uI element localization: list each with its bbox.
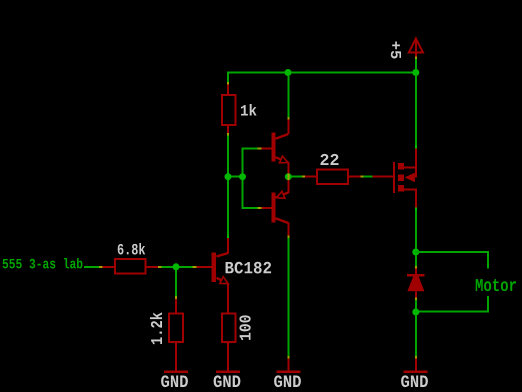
wire node down to R4 — [175, 270, 177, 296]
resistor R1 1k — [222, 95, 257, 125]
transistor Q2 top NPN — [272, 76, 290, 177]
resistor R5 100 — [222, 314, 251, 343]
wire Q3 collector pin down — [287, 223, 289, 236]
mosfet Q4 — [393, 146, 417, 211]
ground GND2 — [214, 371, 241, 388]
wire Q1 emitter pin down to R5 — [227, 284, 229, 313]
label 555 3-as lab — [3, 258, 83, 268]
resistor R2 6.8k — [115, 243, 146, 274]
wire motor node to GND — [415, 316, 417, 357]
node dot emitters — [285, 173, 292, 180]
wire top net from 1k corner to +5 rail — [227, 72, 417, 74]
wire bottom base lead — [244, 207, 258, 209]
wire node to R3 — [292, 176, 303, 178]
supply symbol +5 — [391, 39, 423, 70]
wire Q1 collector pin up — [227, 247, 229, 254]
wire Q3 emitter pin up to node — [287, 177, 289, 193]
wire Q2 collector pin up to top net — [287, 120, 289, 134]
label GND — [214, 375, 241, 387]
node junction dot at top wire x=415 — [412, 69, 419, 76]
label Motor — [476, 279, 516, 291]
wire R2 to base node — [147, 266, 159, 268]
wire corner down to R1 top — [227, 72, 229, 82]
resistor R4 1.2k — [150, 312, 183, 344]
wire mosfet source down to motor node — [415, 210, 417, 252]
wire Q3 collector to GND — [287, 238, 289, 356]
wire label to R2 — [84, 266, 99, 268]
junction dot 1k/collector rail — [225, 173, 232, 180]
label GND — [274, 375, 301, 387]
junction dot motor top — [412, 249, 419, 256]
wire branch to base tie — [228, 176, 243, 178]
label +5 — [391, 42, 401, 59]
wire motor bracket lower — [487, 296, 489, 313]
wire motor bottom — [416, 311, 490, 313]
wire R4 to GND — [175, 343, 177, 371]
value label 22 — [321, 154, 339, 165]
wire R3 to gate — [349, 176, 361, 178]
ground GND4 — [401, 371, 428, 388]
junction dot base tie — [239, 173, 246, 180]
mosfet bulk arrow — [405, 173, 415, 183]
transistor Q3 bottom PNP — [272, 177, 290, 371]
value label 100 — [239, 315, 250, 340]
wire motor bracket upper — [487, 251, 489, 269]
wire top base lead — [244, 148, 258, 150]
wire base tie vertical — [242, 148, 244, 209]
wire Q2 emitter pin down to node — [287, 162, 289, 177]
value label 1k — [241, 104, 257, 115]
wire R5 to GND — [227, 343, 229, 371]
name label BC182 — [226, 262, 272, 274]
junction dot base node — [173, 263, 180, 270]
wire motor top — [416, 251, 490, 253]
ground GND3 — [274, 371, 301, 388]
wire +5 rail down to mosfet drain — [415, 76, 417, 146]
diode D1 — [407, 256, 425, 310]
wire R1 bottom down to node row — [227, 126, 229, 133]
ground GND1 — [161, 371, 188, 388]
value label 1.2k — [150, 312, 162, 344]
transistor Q1 BC182 — [212, 247, 272, 313]
label GND — [161, 375, 188, 387]
value label 6.8k — [118, 243, 145, 255]
label GND — [401, 375, 428, 387]
node junction dot at top wire x=288 — [285, 69, 292, 76]
junction dot motor bottom — [412, 309, 419, 316]
resistor R3 22 — [317, 154, 348, 184]
